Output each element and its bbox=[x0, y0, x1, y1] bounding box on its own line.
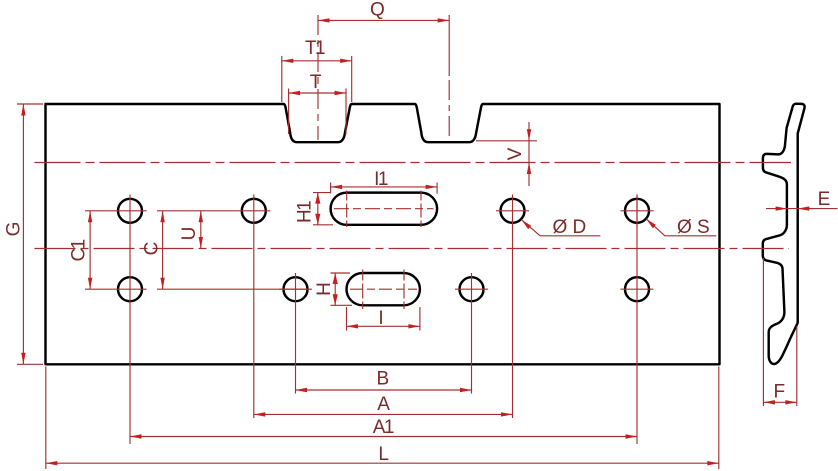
crosshair bottom mid-right hole bbox=[455, 288, 488, 290]
svg-text:F: F bbox=[773, 382, 785, 403]
svg-text:E: E bbox=[818, 189, 831, 210]
dimension I bbox=[347, 325, 420, 327]
crosshair top-left hole bbox=[114, 210, 147, 212]
dimension C bbox=[162, 211, 164, 289]
slot upper (obround) bbox=[331, 193, 438, 225]
plate outline (front view) with grouser notches bbox=[46, 104, 720, 364]
upper slot centerlines bbox=[334, 208, 434, 210]
svg-text:A: A bbox=[377, 394, 390, 415]
svg-text:C: C bbox=[142, 242, 163, 256]
dimension B bbox=[296, 389, 472, 391]
crosshair bottom-left hole bbox=[114, 288, 147, 290]
svg-text:T: T bbox=[310, 72, 322, 93]
dimension T bbox=[289, 92, 346, 94]
svg-text:Ø D: Ø D bbox=[553, 217, 587, 238]
crosshair bottom mid-left hole bbox=[279, 288, 312, 290]
svg-text:C1: C1 bbox=[69, 239, 90, 261]
dimension I1 bbox=[331, 186, 438, 188]
notch 2 centerline bbox=[448, 15, 450, 76]
leader and label for hole diameter S bbox=[646, 219, 716, 236]
dimension U bbox=[200, 211, 202, 249]
svg-text:I1: I1 bbox=[374, 169, 388, 190]
slot lower (obround) bbox=[347, 273, 420, 305]
dimension C1 bbox=[89, 211, 91, 289]
dimension H bbox=[334, 273, 336, 305]
crosshair hole S bbox=[621, 210, 654, 212]
crosshair top mid-left hole bbox=[237, 210, 270, 212]
hole bottom-right bbox=[625, 277, 649, 301]
hole top mid-right (D) bbox=[501, 199, 525, 223]
svg-text:I: I bbox=[378, 308, 383, 329]
dimension A1 bbox=[130, 436, 637, 438]
dimension F (foot width) bbox=[763, 401, 796, 403]
dimension T1 bbox=[282, 60, 352, 62]
svg-text:A1: A1 bbox=[373, 417, 394, 438]
svg-text:U: U bbox=[179, 227, 200, 241]
svg-text:Q: Q bbox=[370, 0, 385, 21]
hole top-right (S) bbox=[625, 199, 649, 223]
horizontal centerline lower bbox=[35, 248, 790, 250]
svg-text:H: H bbox=[314, 282, 335, 296]
svg-text:V: V bbox=[505, 147, 526, 160]
horizontal centerline upper bbox=[35, 162, 792, 164]
dimension V bbox=[528, 122, 530, 186]
hole bottom mid-left bbox=[284, 277, 308, 301]
dimension Q bbox=[318, 19, 449, 21]
hole bottom mid-right bbox=[460, 277, 484, 301]
svg-text:G: G bbox=[4, 222, 25, 237]
side view track-shoe profile bbox=[763, 104, 805, 364]
dimension E (plate thickness) bbox=[766, 208, 838, 210]
crosshair hole D bbox=[496, 210, 529, 212]
crosshair bottom-right hole bbox=[621, 288, 654, 290]
lower slot centerlines bbox=[350, 288, 417, 290]
dimension A bbox=[254, 413, 513, 415]
leader and label for hole diameter D bbox=[521, 220, 600, 236]
hole bottom-left bbox=[118, 277, 142, 301]
svg-text:Ø S: Ø S bbox=[677, 217, 710, 238]
svg-text:T1: T1 bbox=[305, 38, 325, 59]
svg-text:B: B bbox=[376, 369, 389, 390]
hole top mid-left bbox=[242, 199, 266, 223]
dimension H1 bbox=[317, 193, 319, 225]
svg-text:H1: H1 bbox=[295, 201, 316, 223]
dimension G bbox=[22, 104, 24, 364]
svg-text:L: L bbox=[378, 444, 389, 465]
hole top-left bbox=[118, 199, 142, 223]
dimension L bbox=[46, 462, 719, 464]
notch 1 centerline bbox=[317, 15, 319, 140]
